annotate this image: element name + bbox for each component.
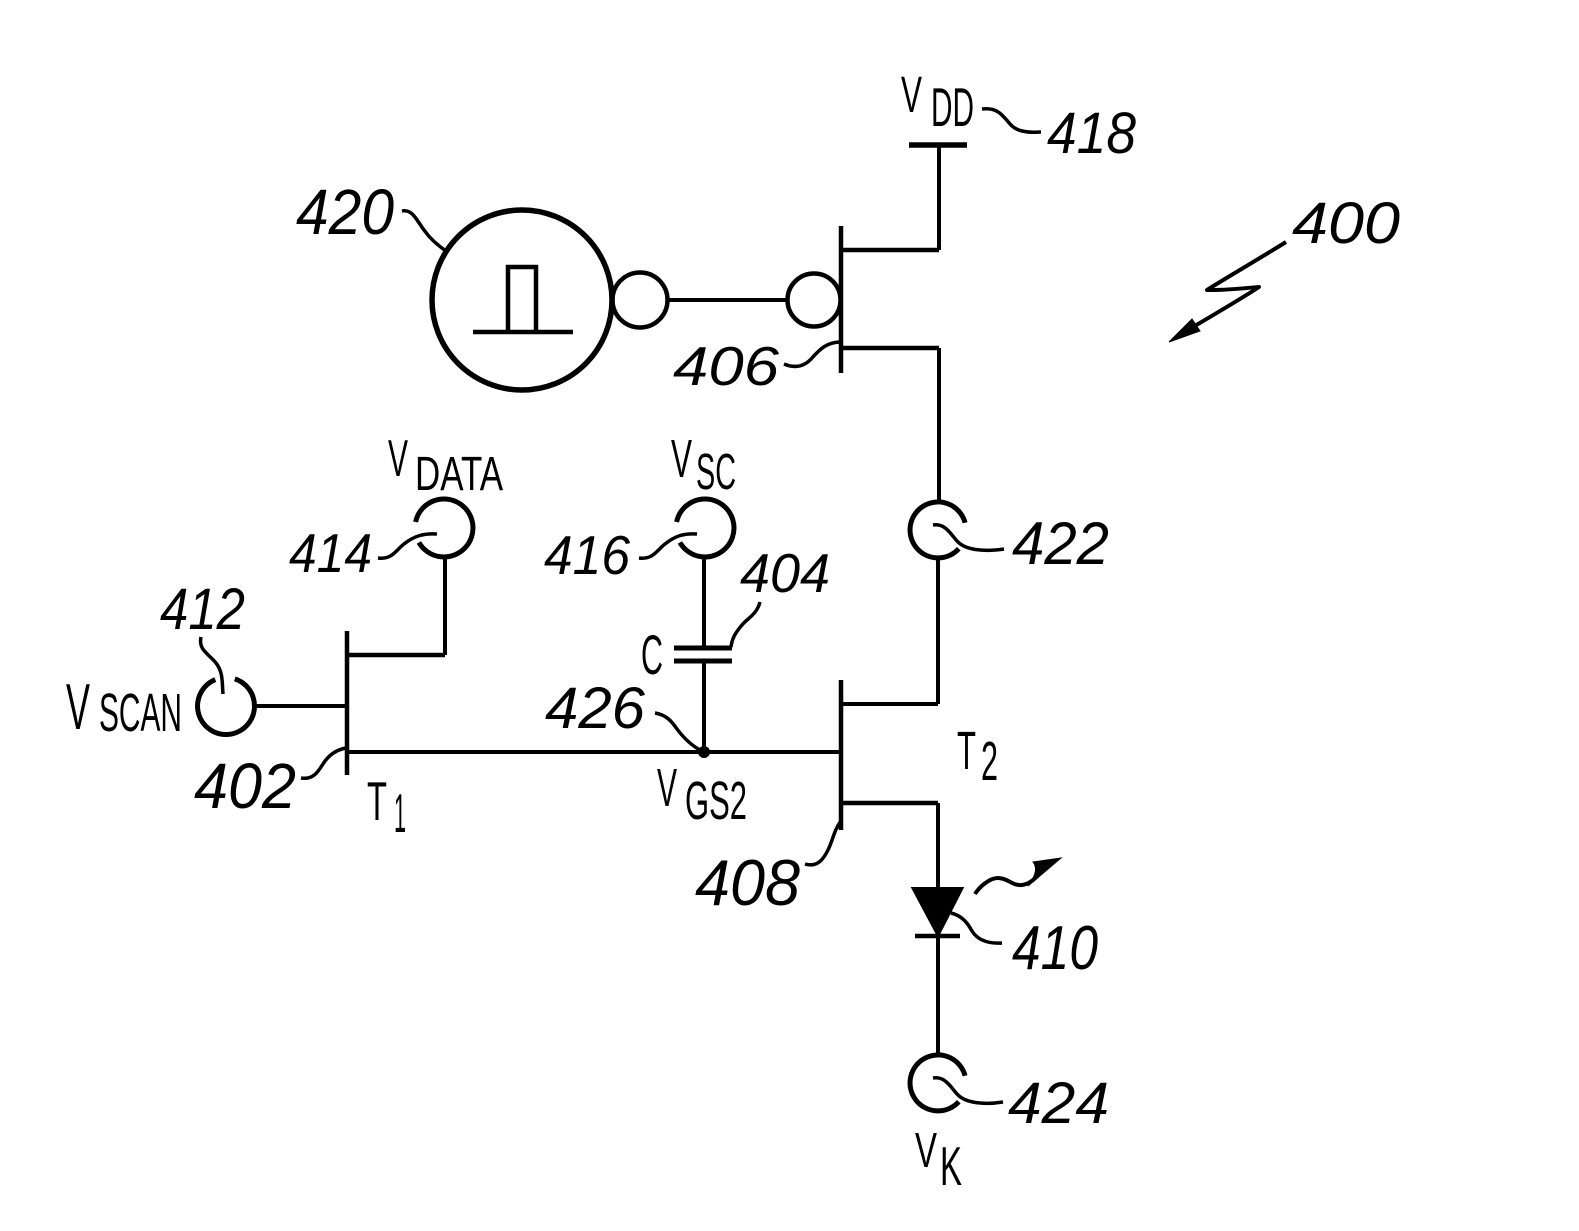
svg-text:1: 1 bbox=[394, 782, 406, 844]
leader squiggle 412 bbox=[200, 637, 223, 694]
leader squiggle 418 bbox=[982, 109, 1041, 133]
terminal circle 416 (VSC) bbox=[677, 499, 734, 557]
junction dot node 426 bbox=[698, 746, 710, 758]
node 422 circle bbox=[910, 502, 965, 558]
wire VSCAN terminal to T1 gate bbox=[255, 704, 347, 708]
wire T1 drain up to VDATA terminal bbox=[443, 557, 447, 655]
wire node 422 to T2 drain bbox=[841, 558, 938, 704]
svg-text:420: 420 bbox=[296, 176, 394, 248]
svg-text:408: 408 bbox=[695, 846, 800, 919]
svg-text:V: V bbox=[915, 1124, 937, 1178]
leader squiggle 420 bbox=[402, 211, 447, 252]
wire T2 source to LED bbox=[936, 803, 940, 890]
svg-text:404: 404 bbox=[740, 542, 830, 604]
wire pulse source to gate of 406 bbox=[668, 298, 787, 302]
svg-text:V: V bbox=[901, 66, 922, 123]
gate row wire T1 source to T2 gate bbox=[347, 750, 841, 754]
svg-text:V: V bbox=[66, 670, 90, 743]
leader squiggle 406 bbox=[784, 342, 841, 366]
wire VDD to transistor 406 drain bbox=[937, 145, 941, 250]
svg-text:412: 412 bbox=[160, 577, 245, 642]
svg-text:DATA: DATA bbox=[415, 448, 503, 501]
leader squiggle 402 bbox=[301, 748, 346, 778]
transistor 406 bbox=[788, 226, 940, 373]
wire 406 source to node 422 bbox=[937, 348, 941, 502]
LED light emission arrow bbox=[975, 872, 1041, 894]
svg-text:414: 414 bbox=[289, 522, 372, 584]
svg-text:K: K bbox=[940, 1135, 962, 1197]
svg-text:400: 400 bbox=[1292, 191, 1400, 256]
svg-text:406: 406 bbox=[673, 335, 779, 397]
wire VSC terminal to capacitor bbox=[702, 557, 706, 646]
leader squiggle 414 bbox=[378, 534, 437, 558]
LED 410 anode triangle bbox=[914, 889, 961, 934]
wire LED to terminal 424 bbox=[936, 936, 940, 1054]
LED 410 cathode bar bbox=[915, 934, 960, 939]
leader squiggle 404 bbox=[731, 602, 760, 647]
svg-text:V: V bbox=[657, 758, 677, 818]
svg-text:SC: SC bbox=[696, 443, 736, 500]
leader squiggle 416 bbox=[639, 534, 697, 558]
leader squiggle 426 bbox=[655, 713, 700, 750]
svg-text:410: 410 bbox=[1012, 914, 1098, 983]
terminal circle 414 (VDATA) bbox=[416, 499, 473, 557]
wire capacitor to node 426 bbox=[702, 663, 706, 752]
terminal circle 424 (VK) bbox=[910, 1055, 965, 1111]
pulse waveform symbol bbox=[473, 267, 573, 332]
svg-text:424: 424 bbox=[1008, 1071, 1109, 1136]
reference arrow 400 zigzag bbox=[1193, 242, 1286, 327]
svg-text:422: 422 bbox=[1012, 510, 1109, 577]
leader squiggle 424 bbox=[933, 1078, 1003, 1104]
svg-text:T: T bbox=[957, 721, 976, 781]
svg-text:2: 2 bbox=[981, 730, 998, 792]
pulse source 420 bbox=[432, 210, 612, 390]
pulse source output bubble bbox=[613, 273, 668, 328]
svg-text:418: 418 bbox=[1047, 101, 1136, 166]
svg-text:T: T bbox=[367, 770, 387, 832]
leader squiggle 422 bbox=[933, 525, 1004, 551]
transistor T2 408 bbox=[841, 680, 938, 830]
svg-text:DD: DD bbox=[931, 76, 974, 138]
leader squiggle 408 bbox=[805, 821, 841, 865]
svg-text:426: 426 bbox=[545, 676, 646, 741]
power rail VDD bar 418 bbox=[909, 142, 967, 148]
capacitor C 404 plates bbox=[674, 648, 732, 661]
svg-text:402: 402 bbox=[194, 750, 296, 822]
svg-text:V: V bbox=[388, 430, 408, 488]
svg-text:GS2: GS2 bbox=[685, 771, 747, 831]
svg-text:V: V bbox=[671, 429, 692, 489]
terminal circle 412 (VSCAN) bbox=[198, 679, 255, 735]
svg-text:416: 416 bbox=[544, 524, 630, 586]
leader squiggle 410 bbox=[951, 913, 1002, 943]
svg-text:SCAN: SCAN bbox=[99, 683, 182, 743]
transistor T1 402 bbox=[347, 631, 445, 775]
